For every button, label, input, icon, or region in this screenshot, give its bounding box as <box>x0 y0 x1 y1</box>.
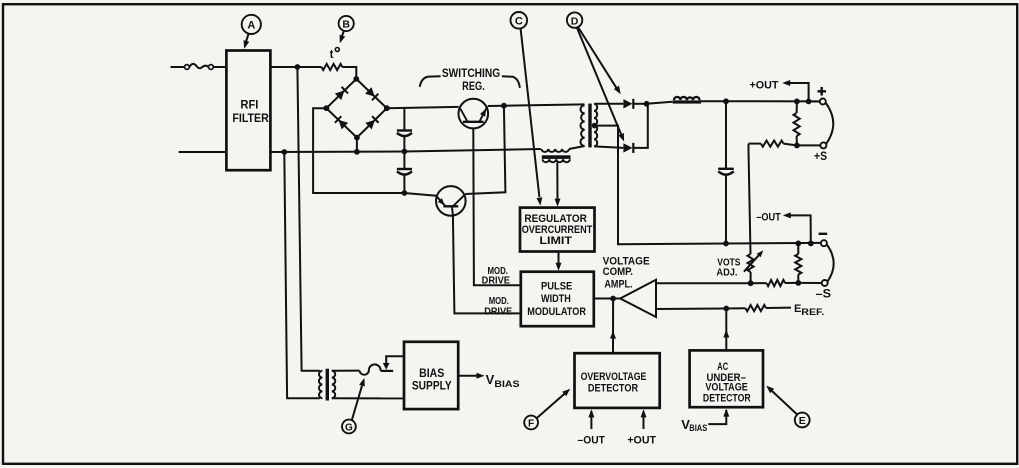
callout F arrow <box>537 389 571 419</box>
node +S junction <box>794 143 800 149</box>
wire CR3 up to node <box>633 104 648 148</box>
callout D arrow to diode CR3 <box>577 28 624 142</box>
svg-text:REG.: REG. <box>462 79 485 93</box>
wire C3 to minus rail <box>725 175 727 243</box>
svg-text:DETECTOR: DETECTOR <box>703 392 751 404</box>
node bridge bottom <box>354 135 360 141</box>
potentiometer R4 vots adj <box>744 250 763 283</box>
node -rail out tap <box>808 241 814 247</box>
wire center tap to minus rail <box>595 126 822 245</box>
callout B arrow <box>340 31 346 44</box>
svg-text:WIDTH: WIDTH <box>541 293 571 305</box>
arrow regulator to pwm <box>556 263 562 271</box>
wire bridge bottom to mid rail <box>356 138 358 152</box>
wire Q2 base mod drive 2 <box>452 206 521 313</box>
wire T2 secondary to regulator box <box>556 163 558 201</box>
svg-text:COMP.: COMP. <box>603 266 633 278</box>
diode CR3 <box>623 143 633 153</box>
capacitor C3 <box>718 169 734 175</box>
wire mid rail to C2 <box>403 152 405 169</box>
thermistor RT t-deg <box>322 48 343 71</box>
svg-text:t: t <box>330 49 334 61</box>
terminal -S <box>822 280 828 286</box>
wire -S junction to terminal <box>798 282 821 284</box>
wire AC input top <box>171 66 185 68</box>
svg-text:OVERVOLTAGE: OVERVOLTAGE <box>581 371 647 383</box>
node caps bottom <box>402 190 408 196</box>
svg-text:+OUT: +OUT <box>627 434 656 446</box>
callout F <box>524 416 538 430</box>
node bridge left <box>324 105 330 111</box>
wire RFI top output <box>270 66 321 68</box>
callout G arrow <box>352 378 365 420</box>
inductor L1 <box>673 97 701 104</box>
svg-text:PULSE: PULSE <box>541 280 572 292</box>
svg-text:REF.: REF. <box>801 307 824 318</box>
svg-text:C: C <box>515 16 523 28</box>
node mid rail cap tap <box>402 149 408 155</box>
wire bridge to Q1 <box>387 107 459 108</box>
node rectifier output <box>644 101 650 107</box>
wire vbias output <box>458 375 477 377</box>
svg-text:ADJ.: ADJ. <box>716 267 737 279</box>
wire op-amp output <box>594 298 620 300</box>
label V BIAS output <box>486 372 520 390</box>
arrow ac uv up <box>723 330 729 338</box>
strap - to -S <box>827 244 834 281</box>
transformer T1 <box>580 104 597 148</box>
svg-text:E: E <box>794 303 801 315</box>
wire +out into ov detector <box>643 411 645 429</box>
bridge rectifier CR1 frame <box>326 79 386 138</box>
wire Q1 to rail junction <box>488 105 504 107</box>
node mid rail bias tap <box>281 149 287 155</box>
bridge diode bottom-right <box>365 116 378 129</box>
transformer T2 current sense <box>541 149 570 162</box>
node op-amp output junction <box>610 296 616 302</box>
svg-text:BIAS: BIAS <box>494 379 519 390</box>
wire bridge + to caps <box>403 108 405 130</box>
svg-text:MODULATOR: MODULATOR <box>527 306 586 318</box>
wire +rail to C3 <box>725 101 727 168</box>
svg-text:–OUT: –OUT <box>578 434 606 446</box>
transistor Q1 <box>459 99 489 129</box>
node +rail out tap <box>806 99 812 105</box>
svg-text:F: F <box>528 419 534 430</box>
wire ac uv detector to eref junction <box>725 309 727 351</box>
svg-text:BIAS: BIAS <box>689 423 707 433</box>
wire T1 secondary bottom to CR3 <box>594 146 623 148</box>
label switching reg <box>420 66 520 93</box>
wire thermistor to bridge top <box>342 67 356 79</box>
svg-text:–S: –S <box>816 289 832 301</box>
wire Q1 base mod drive 1 <box>473 128 521 285</box>
svg-text:D: D <box>571 15 579 27</box>
wire +S sense down to pot <box>749 144 751 254</box>
callout C arrow <box>521 29 543 206</box>
label voltage comp ampl <box>603 256 650 291</box>
wire T3 secondary top to breaker <box>332 370 360 372</box>
callout D <box>567 12 582 27</box>
node T1 center tap <box>592 123 598 129</box>
wire AC input bottom <box>179 151 227 153</box>
resistor R6 eref <box>726 305 791 311</box>
arrow -out into ov detector <box>588 409 594 417</box>
resistor R1 +sense divider <box>794 101 800 145</box>
wire T1 primary bottom to sense <box>569 146 585 149</box>
node Q1 output junction <box>501 103 507 109</box>
ac under-voltage detector block <box>690 350 763 407</box>
wire op-amp top input <box>656 282 751 284</box>
bridge diode bottom-left <box>335 116 348 129</box>
wire bridge left bypass <box>313 108 404 193</box>
wire caps bottom to Q2 <box>404 193 436 196</box>
callout B <box>339 16 354 31</box>
svg-text:E: E <box>799 415 806 427</box>
pulse width modulator block <box>521 272 594 327</box>
arrow +OUT tap <box>782 80 808 101</box>
label mod drive 2 <box>484 296 512 317</box>
svg-text:A: A <box>247 20 255 32</box>
circuit breaker CB1 <box>360 356 405 375</box>
diode CR2 <box>623 99 633 109</box>
wire fuse to RFI filter <box>213 66 226 68</box>
node -S sense junction <box>795 280 801 286</box>
callout G <box>342 420 356 434</box>
label + polarity <box>818 87 827 96</box>
wire ov detector to op-amp junction <box>612 299 614 354</box>
RFI filter block <box>226 51 270 171</box>
transistor Q2 <box>436 186 466 216</box>
label E REF <box>794 303 824 318</box>
svg-text:SUPPLY: SUPPLY <box>412 378 452 392</box>
wire T1 secondary top to CR2 <box>594 103 623 105</box>
node top-output junction <box>295 64 301 70</box>
wire node to L1 <box>647 102 673 104</box>
svg-text:+S: +S <box>814 151 827 163</box>
svg-text:FILTER: FILTER <box>232 111 269 125</box>
node eref junction <box>723 306 729 312</box>
callout A arrow <box>244 33 250 48</box>
wire CR2 to node <box>633 103 646 105</box>
arrow -OUT tap <box>783 212 811 243</box>
capacitor C2 <box>397 169 412 175</box>
bridge diode top-left <box>335 87 348 100</box>
capacitor C1 <box>397 131 412 137</box>
wire vbias into ac uv detector <box>708 410 726 424</box>
svg-text:RFI: RFI <box>240 98 258 112</box>
svg-text:B: B <box>342 19 350 31</box>
node bridge top <box>353 76 359 82</box>
label mod drive 1 <box>482 266 511 287</box>
wire to + terminal <box>809 100 820 102</box>
wire Q1 Q2 link <box>465 106 505 194</box>
arrow T2 into regulator <box>555 199 561 207</box>
terminal +S <box>820 142 826 148</box>
callout E <box>795 413 810 428</box>
label - polarity <box>819 233 828 235</box>
node pot op-amp junction <box>748 280 754 286</box>
node +rail sense-res tap <box>794 99 800 105</box>
label vots adj <box>716 257 740 279</box>
svg-text:SWITCHING: SWITCHING <box>442 66 500 80</box>
node bridge right <box>384 105 390 111</box>
arrow ov detector up <box>610 331 616 339</box>
callout A <box>242 15 261 34</box>
terminal + output <box>820 99 826 105</box>
overvoltage detector block <box>575 353 660 408</box>
node -rail cap tap <box>723 241 729 247</box>
svg-text:G: G <box>345 423 353 434</box>
svg-text:V: V <box>486 372 495 387</box>
callout E arrow <box>766 386 797 415</box>
svg-text:LIMIT: LIMIT <box>539 235 572 247</box>
resistor R5 -S sense line <box>751 280 799 286</box>
bridge diode top-right <box>365 87 378 100</box>
wire C2 to bypass <box>403 175 405 193</box>
wire T3 secondary bottom to bias supply <box>332 397 404 399</box>
svg-text:DRIVE: DRIVE <box>484 306 512 317</box>
svg-text:DETECTOR: DETECTOR <box>588 383 638 395</box>
wire mid rail <box>270 149 541 152</box>
node -rail sense-res tap <box>795 241 801 247</box>
wire bias tap top <box>297 67 319 371</box>
label V BIAS input <box>681 417 707 433</box>
wire +S junction to terminal <box>797 144 821 146</box>
wire -out into ov detector <box>590 411 592 429</box>
resistor R3 -sense divider <box>795 243 801 283</box>
node +rail cap tap <box>723 98 729 104</box>
terminal - output <box>821 240 827 246</box>
svg-text:DRIVE: DRIVE <box>482 276 511 287</box>
callout C <box>511 12 528 29</box>
wire regulator to pwm <box>558 252 560 265</box>
wire L1 to +OUT rail <box>700 100 820 102</box>
op-amp U1 voltage comp ampl <box>620 280 656 317</box>
transformer T3 bias <box>319 369 335 401</box>
wire op-amp bottom input <box>656 308 726 311</box>
callout D arrow to diode CR2 <box>578 27 621 94</box>
node mid rail bridge bottom <box>354 149 360 155</box>
resistor R2 +S sense <box>749 141 797 147</box>
wire C1 to mid rail <box>403 137 405 152</box>
arrow +out into ov detector <box>641 409 647 417</box>
wire rail junction to transformer <box>504 104 585 105</box>
regulator overcurrent limit block <box>520 208 595 252</box>
bias supply block <box>404 342 458 409</box>
svg-text:–OUT: –OUT <box>756 211 781 223</box>
svg-text:+OUT: +OUT <box>750 80 779 92</box>
arrow vbias into ac uv detector <box>723 409 729 417</box>
arrow vbias output <box>477 373 485 379</box>
fuse F1 input <box>185 64 214 70</box>
strap + to +S <box>826 103 834 145</box>
svg-text:AMPL.: AMPL. <box>604 278 632 290</box>
wire bias tap bottom <box>284 152 320 398</box>
